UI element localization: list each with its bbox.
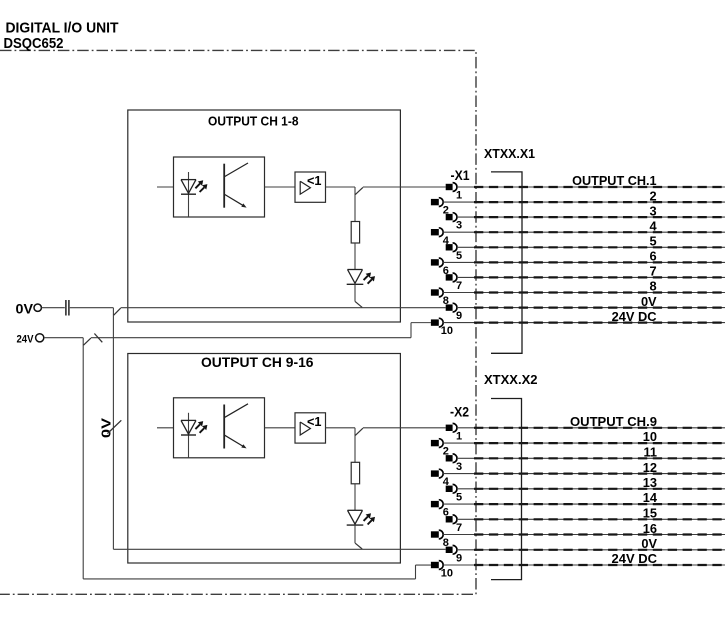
svg-text:<1: <1: [307, 414, 322, 429]
24V branch 45-deg tap: [84, 338, 91, 345]
optocoupler LED 1: [181, 179, 196, 181]
wire pin 9 -X1 to field: [457, 307, 725, 309]
driver box 2: [295, 413, 326, 443]
output block box 1: [128, 110, 401, 322]
wire filter to 0V branch point: [70, 307, 114, 309]
wire pin 1 -X1 to field: [457, 186, 725, 188]
wire pin 10 -X2 to field: [443, 564, 725, 566]
svg-text:10: 10: [643, 429, 657, 444]
unit border DSQC652 (dash-dot outline): [0, 50, 476, 594]
cable bracket XTXX.X2: [491, 399, 522, 580]
field cable dashes pin 8 -X2: [474, 533, 725, 535]
connector -X1 pin 1 plug-socket: [446, 184, 453, 190]
0V rail vertical drop to block 2: [112, 308, 114, 550]
svg-text:OUTPUT CH 1-8: OUTPUT CH 1-8: [208, 114, 299, 128]
connector -X1 pin 3 plug-socket: [446, 214, 453, 220]
connector -X1 pin 5 plug-socket: [446, 244, 453, 250]
svg-text:8: 8: [649, 279, 656, 294]
wire pin 8 -X1 to field: [443, 292, 725, 294]
wire pin 8 -X2 to field: [443, 534, 725, 536]
svg-text:2: 2: [649, 188, 656, 203]
optocoupler LED anode lead 2: [188, 413, 190, 458]
wire LED cathode to 0V rail with 45-deg tap 2: [354, 525, 356, 543]
svg-text:5: 5: [456, 491, 462, 503]
svg-text:10: 10: [441, 325, 453, 337]
optocoupler box U1: [174, 157, 265, 217]
svg-text:0V: 0V: [641, 294, 657, 309]
indicator LED 2: [348, 509, 363, 511]
field cable dashes pin 6 -X2: [474, 503, 725, 505]
cable-break slash on 0V vertical rail: [107, 420, 121, 433]
wire pin 7 -X1 to field: [457, 276, 725, 278]
field cable dashes pin 3 -X2: [474, 457, 725, 459]
connector -X1 pin 10 plug-socket: [431, 319, 439, 325]
connector -X2 pin 3 plug-socket: [446, 455, 453, 461]
optocoupler phototransistor 2: [223, 405, 225, 449]
svg-text:12: 12: [643, 460, 657, 475]
wire pin 6 -X2 to field: [443, 503, 725, 505]
svg-text:DSQC652: DSQC652: [4, 35, 64, 52]
connector -X1 pin 6 plug-socket: [431, 259, 439, 265]
indicator LED 1: [348, 269, 363, 271]
24V rail corner to step pin 10 X2: [83, 578, 415, 580]
optocoupler box U2: [174, 398, 265, 458]
wire pin 3 -X2 to field: [457, 457, 725, 459]
connector -X2 pin 1 plug-socket: [446, 425, 453, 431]
wire input stub into optocoupler 1: [157, 186, 174, 188]
svg-text:5: 5: [649, 234, 656, 249]
optocoupler phototransistor 1: [223, 164, 225, 208]
wire pin 7 -X2 to field: [457, 518, 725, 520]
svg-text:9: 9: [456, 310, 462, 322]
connector -X1 pin 4 plug-socket: [431, 229, 439, 235]
field cable dashes pin 5 -X2: [474, 488, 725, 490]
svg-text:1: 1: [456, 190, 462, 202]
wire pin 3 -X1 to field: [457, 216, 725, 218]
field cable dashes pin 10 -X2: [474, 564, 725, 566]
wire pin 4 -X2 to field: [443, 473, 725, 475]
field cable dashes pin 10 -X1: [474, 322, 725, 324]
svg-text:0V: 0V: [100, 417, 114, 438]
svg-text:<1: <1: [307, 173, 322, 188]
svg-text:4: 4: [649, 218, 657, 233]
wire resistor to LED 2: [354, 484, 356, 511]
field cable dashes pin 9 -X2: [474, 549, 725, 551]
optocoupler LED 2: [181, 419, 196, 421]
0V rail corner into block 2 rail: [113, 548, 445, 550]
wire resistor to LED 1: [354, 243, 356, 270]
svg-text:3: 3: [649, 203, 656, 218]
indicator LED emission arrows 1: [364, 276, 368, 280]
field cable dashes pin 4 -X2: [474, 473, 725, 475]
field cable dashes pin 7 -X1: [474, 276, 725, 278]
connector -X1 pin 7 plug-socket: [446, 274, 453, 280]
wire 24V terminal to branch point: [44, 337, 83, 339]
svg-text:24V DC: 24V DC: [612, 551, 658, 566]
svg-text:7: 7: [456, 522, 462, 534]
connector -X2 pin 10 plug-socket: [431, 562, 439, 568]
wire pin 9 -X2 to field: [457, 549, 725, 551]
terminal circle 24V: [36, 334, 44, 342]
wire pin 1 -X2 to field: [457, 427, 725, 429]
connector -X2 pin 5 plug-socket: [446, 486, 453, 492]
svg-text:0V: 0V: [16, 301, 34, 316]
field cable dashes pin 8 -X1: [474, 291, 725, 293]
connector -X1 pin 2 plug-socket: [431, 199, 439, 205]
svg-text:OUTPUT CH.1: OUTPUT CH.1: [572, 173, 657, 188]
wire optocoupler to driver 1: [265, 186, 296, 188]
field cable dashes pin 1 -X2: [474, 427, 725, 429]
junction branch with 45-deg tap 2: [354, 428, 356, 463]
resistor 1: [351, 222, 359, 244]
svg-text:24V DC: 24V DC: [612, 309, 657, 324]
junction branch with 45-deg tap 1: [354, 187, 356, 222]
connector -X2 pin 8 plug-socket: [431, 531, 439, 537]
connector -X2 pin 2 plug-socket: [431, 440, 439, 446]
0V rail horizontal through block 1 to pin 9: [121, 307, 446, 309]
svg-text:3: 3: [456, 220, 462, 232]
svg-text:0V: 0V: [641, 536, 657, 551]
svg-text:11: 11: [643, 445, 657, 460]
wire driver output 2: [326, 427, 356, 429]
svg-text:1: 1: [456, 430, 462, 442]
wire 0V terminal to filter: [42, 307, 65, 309]
driver box 1: [295, 172, 326, 202]
svg-text:6: 6: [649, 249, 656, 264]
wire pin 10 -X1 to field: [443, 322, 725, 324]
svg-text:5: 5: [456, 250, 462, 262]
svg-text:-X1: -X1: [451, 168, 470, 183]
wire 24V rail to step: [91, 337, 411, 339]
wire pin 4 -X1 to field: [443, 231, 725, 233]
field cable dashes pin 7 -X2: [474, 518, 725, 520]
connector -X2 pin 4 plug-socket: [431, 470, 439, 476]
driver triangle 1: [300, 181, 310, 194]
field cable dashes pin 1 -X1: [474, 186, 725, 188]
wire input stub into optocoupler 2: [157, 427, 174, 429]
connector -X2 pin 6 plug-socket: [431, 501, 439, 507]
output block box 2: [128, 354, 401, 564]
field cable dashes pin 2 -X2: [474, 442, 725, 444]
svg-text:7: 7: [649, 264, 656, 279]
field cable dashes pin 6 -X1: [474, 261, 725, 263]
wire pin 2 -X1 to field: [443, 201, 725, 203]
wire pin 2 -X2 to field: [443, 442, 725, 444]
optocoupler LED emission arrows 2: [195, 424, 200, 429]
wire junction to connector pin 1 1: [363, 186, 446, 188]
svg-text:16: 16: [643, 521, 657, 536]
svg-text:XTXX.X2: XTXX.X2: [484, 372, 538, 387]
wire pin 6 -X1 to field: [443, 261, 725, 263]
optocoupler LED emission arrows 1: [195, 184, 200, 189]
connector -X1 pin 8 plug-socket: [431, 289, 439, 295]
field cable dashes pin 5 -X1: [474, 246, 725, 248]
svg-text:13: 13: [643, 475, 657, 490]
wire pin 5 -X1 to field: [457, 246, 725, 248]
field cable dashes pin 2 -X1: [474, 201, 725, 203]
connector -X2 pin 9 plug-socket: [446, 547, 453, 553]
wire optocoupler to driver 2: [265, 427, 296, 429]
cable bracket XTXX.X1: [491, 172, 522, 353]
terminal circle 0V: [34, 304, 41, 311]
svg-text:DIGITAL I/O UNIT: DIGITAL I/O UNIT: [6, 20, 119, 37]
wire driver output 1: [326, 186, 356, 188]
connector -X1 pin 9 plug-socket: [446, 304, 453, 310]
24V step up to pin 10 X1: [410, 323, 412, 338]
svg-text:7: 7: [456, 280, 462, 292]
svg-text:24V: 24V: [17, 333, 35, 345]
24V rail vertical drop to block 2: [82, 338, 84, 579]
svg-text:14: 14: [643, 490, 658, 505]
connector -X2 pin 7 plug-socket: [446, 516, 453, 522]
svg-text:XTXX.X1: XTXX.X1: [484, 146, 535, 161]
wire LED cathode to 0V rail with 45-deg tap 1: [354, 284, 356, 301]
resistor 2: [351, 462, 359, 484]
0V branch 45-deg tap: [114, 308, 121, 315]
svg-text:15: 15: [643, 506, 657, 521]
wire pin 5 -X2 to field: [457, 488, 725, 490]
wire junction to connector pin 1 2: [363, 427, 446, 429]
field cable dashes pin 3 -X1: [474, 216, 725, 218]
svg-text:9: 9: [456, 552, 462, 564]
svg-text:3: 3: [456, 461, 462, 473]
optocoupler LED anode lead 1: [188, 172, 190, 217]
feed-through filter capacitor on 0V line: [65, 300, 67, 316]
field cable dashes pin 4 -X1: [474, 231, 725, 233]
field cable dashes pin 9 -X1: [474, 307, 725, 309]
cable-break slash on 24V rail: [94, 334, 102, 343]
svg-text:-X2: -X2: [450, 405, 469, 420]
indicator LED emission arrows 2: [364, 517, 368, 521]
driver triangle 2: [300, 422, 310, 435]
svg-text:OUTPUT CH 9-16: OUTPUT CH 9-16: [201, 354, 314, 370]
svg-text:OUTPUT CH.9: OUTPUT CH.9: [570, 414, 657, 429]
svg-text:10: 10: [441, 568, 453, 580]
